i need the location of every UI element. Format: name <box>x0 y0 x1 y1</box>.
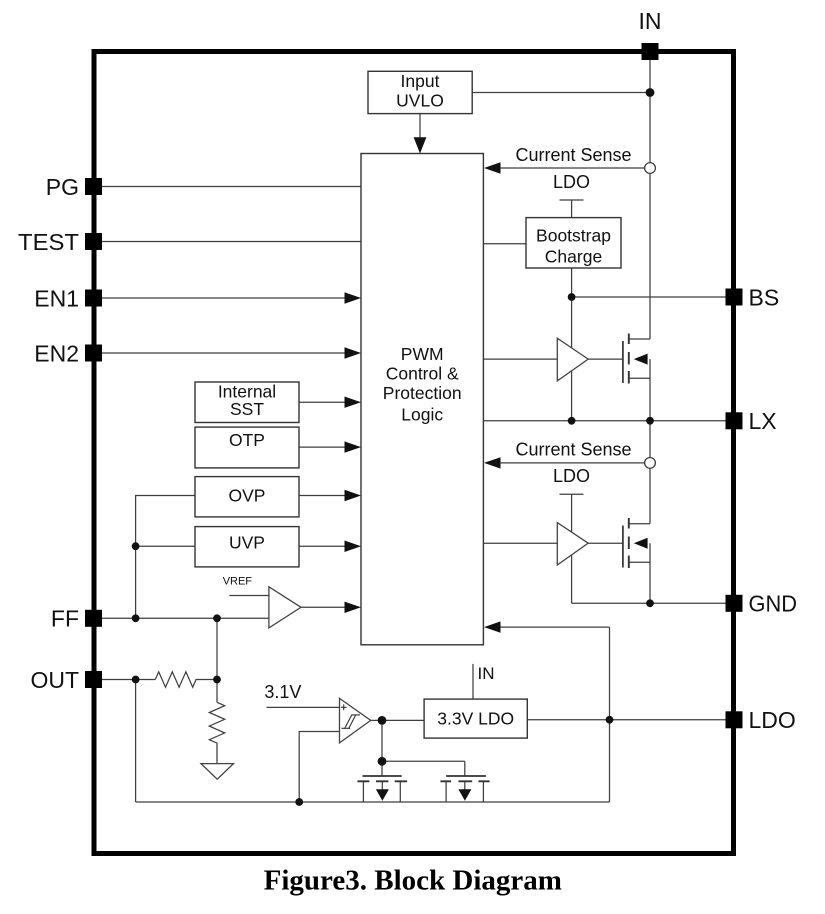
PLATES, ARROWS, PINS, DOTS <box>85 43 743 854</box>
M2 gate plate <box>622 526 624 568</box>
wire M1 source/body vertical to LX <box>649 359 651 421</box>
M2 channel plate dashes <box>628 518 630 568</box>
wire Input UVLO down to PWM box <box>419 114 421 139</box>
wire EN1 pin to PWM box <box>102 297 346 299</box>
pin GND <box>726 595 743 612</box>
wire current sense 1 into PWM <box>499 167 645 169</box>
M3 channel dashes <box>357 780 407 782</box>
wire OUT node down to bottom rail <box>135 680 137 803</box>
ground <box>201 764 234 780</box>
driver U2 (high-side gate driver) <box>557 338 588 381</box>
wire BS branch to BS pin <box>572 296 726 298</box>
pin OUT <box>85 671 102 688</box>
svg-text:3.3V LDO: 3.3V LDO <box>437 709 514 729</box>
svg-text:VREF: VREF <box>223 576 253 588</box>
M3 body arrow down <box>376 789 389 801</box>
block U1 PWM Control & Protection Logic <box>361 154 483 645</box>
node BS junction <box>568 293 576 301</box>
pin PG <box>85 178 102 195</box>
block Input UVLO <box>368 71 472 113</box>
wire divider node vertical FF to R2 <box>216 618 218 702</box>
wire 3.3V LDO output to LDO pin <box>527 719 726 721</box>
svg-text:Charge: Charge <box>545 247 602 267</box>
wire driver U3 output to M2 gate <box>588 542 622 544</box>
svg-text:EN1: EN1 <box>34 285 79 311</box>
svg-text:OTP: OTP <box>229 430 265 450</box>
arrowhead Internal SST into PWM <box>345 397 362 408</box>
wire driver U3 bottom to GND line <box>571 555 573 603</box>
wire IN rail to Input UVLO <box>472 92 650 94</box>
wire M3 body lead <box>381 781 383 791</box>
wire IN stub to 3.3V LDO <box>472 664 474 699</box>
wire bottom rail <box>136 801 610 803</box>
M4 gate bar <box>446 775 486 777</box>
comparator U5 hysteresis glyph <box>342 715 361 728</box>
svg-text:EN2: EN2 <box>34 340 79 366</box>
wire M4 right stub <box>482 781 484 802</box>
wire gate rail to M4 <box>382 760 465 762</box>
wire Bootstrap Charge down through driver U2 to LX <box>571 268 573 421</box>
wire comparator U5 output to 3.3V LDO <box>371 719 424 721</box>
wire OVP left branch <box>136 496 195 619</box>
wire M2 source/body vertical to GND <box>649 543 651 603</box>
svg-text:GND: GND <box>749 591 798 617</box>
svg-text:Protection: Protection <box>383 383 462 403</box>
node rail feedback junction <box>295 798 303 806</box>
pin IN <box>642 43 659 60</box>
wire M4 left stub <box>445 781 447 802</box>
block OTP <box>195 427 299 468</box>
op-amp U4 (VREF comparator) <box>269 587 301 628</box>
svg-text:LX: LX <box>749 408 777 434</box>
wire M2 source stub <box>629 561 650 563</box>
M2 body arrow <box>634 538 648 549</box>
wire M1 source stub <box>629 377 650 379</box>
svg-text:3.1V: 3.1V <box>264 682 301 702</box>
chip outline border <box>94 52 734 854</box>
wire current sense 2 into PWM <box>499 462 645 464</box>
wire VREF stub <box>229 595 269 597</box>
svg-text:BS: BS <box>749 284 780 310</box>
arrowhead comparator U4 into PWM <box>345 602 362 613</box>
node OUT junction left <box>132 676 140 684</box>
wire M3 right stub <box>399 781 401 802</box>
node comparator output junction <box>378 716 387 725</box>
op-amp U5 (3.1V hysteresis comparator) <box>340 698 371 743</box>
svg-text:IN: IN <box>478 664 495 683</box>
M1 channel plate dashes <box>628 334 630 384</box>
svg-text:Current Sense: Current Sense <box>515 439 631 459</box>
arrowhead feedback into PWM <box>484 621 501 632</box>
wire bottom rail up to LDO node <box>609 627 611 802</box>
svg-text:LDO: LDO <box>553 466 590 486</box>
svg-text:IN: IN <box>639 8 662 34</box>
node LX junction left <box>568 417 576 425</box>
wire LDO T-bar 2 <box>560 494 584 533</box>
pin LX <box>726 412 743 429</box>
block OVP <box>195 477 299 517</box>
arrowhead EN1 into PWM <box>345 292 362 303</box>
wire M2 drain stub <box>629 523 650 525</box>
wire M3 left stub <box>362 781 364 802</box>
BLOCKS <box>195 71 621 779</box>
wire PWM to driver U3 input <box>483 542 557 544</box>
wire LDO T-bar 1 <box>560 200 584 218</box>
svg-text:Figure3. Block Diagram: Figure3. Block Diagram <box>264 865 562 897</box>
block Bootstrap Charge <box>526 218 621 268</box>
node FF junction divider <box>213 614 221 622</box>
svg-text:LDO: LDO <box>749 707 796 733</box>
wire comparator U4 output to PWM <box>301 606 346 608</box>
driver U3 (low-side gate driver) <box>557 523 588 565</box>
svg-text:SST: SST <box>230 399 264 419</box>
arrowhead OVP into PWM <box>345 490 362 501</box>
wire IN rail vertical from IN pin to current-sense circle <box>649 59 651 163</box>
block UVP <box>195 527 299 567</box>
current sense probe circle 2 <box>645 458 656 469</box>
svg-text:FF: FF <box>51 606 79 632</box>
svg-text:LDO: LDO <box>553 172 590 192</box>
wire M4 gate lead <box>464 761 466 776</box>
arrowhead current sense 2 into PWM <box>484 457 501 468</box>
resistor R2 vertical zigzag <box>209 702 224 763</box>
svg-text:Control &: Control & <box>386 364 459 384</box>
wire M3 gate lead <box>381 761 383 776</box>
wire LX to current-sense circle 2 <box>649 421 651 458</box>
wire Internal SST to PWM <box>299 401 346 403</box>
svg-text:Current Sense: Current Sense <box>515 145 631 165</box>
pin FF <box>85 610 102 627</box>
wire IN rail below circle to M1 drain <box>649 173 651 339</box>
svg-text:OVP: OVP <box>229 485 266 505</box>
M1 gate plate <box>622 341 624 383</box>
svg-text:TEST: TEST <box>18 229 79 255</box>
node LDO output junction <box>606 716 614 724</box>
arrowhead Input UVLO into PWM <box>414 137 427 153</box>
svg-text:Input: Input <box>401 71 440 91</box>
wire feedback into PWM <box>499 626 610 628</box>
wire UVP left branch <box>136 545 195 547</box>
pin EN2 <box>85 345 102 362</box>
wire PWM to Bootstrap Charge <box>483 243 526 245</box>
wire PWM to driver U2 input <box>483 358 557 360</box>
wire EN2 pin to PWM box <box>102 352 346 354</box>
block Internal SST <box>195 382 299 423</box>
svg-text:Logic: Logic <box>401 405 443 425</box>
pin BS <box>726 289 743 306</box>
wire 3.1V stub to comparator U5 <box>267 706 340 708</box>
M4 channel dashes <box>440 780 489 782</box>
svg-text:OUT: OUT <box>30 667 79 693</box>
svg-text:PWM: PWM <box>401 344 444 364</box>
pin TEST <box>85 233 102 250</box>
node gate rail junction <box>378 757 387 766</box>
wire GND line to GND pin <box>572 602 726 604</box>
wire M1 drain stub <box>629 338 650 340</box>
node FF junction left <box>132 614 140 622</box>
node GND junction <box>646 599 654 607</box>
wire OUT pin to resistor R1 <box>102 679 155 681</box>
node IN-UVLO junction <box>646 88 655 97</box>
wire circle 2 down to M2 drain <box>649 468 651 523</box>
wire driver U2 output to M1 gate <box>588 358 622 360</box>
current sense probe circle 1 <box>645 163 656 174</box>
arrowhead current sense 1 into PWM <box>484 162 501 173</box>
node OVP/UVP junction <box>132 542 140 550</box>
wire gate node down from output <box>381 720 383 761</box>
arrowhead OTP into PWM <box>345 441 362 452</box>
wire TEST pin to PWM box <box>102 241 361 243</box>
M4 body arrow down <box>458 789 471 801</box>
node OUT divider junction <box>213 676 221 684</box>
wire UVP to PWM <box>299 545 346 547</box>
M3 gate bar <box>363 775 402 777</box>
svg-text:UVP: UVP <box>229 533 265 553</box>
resistor R1 horizontal zigzag <box>155 672 217 687</box>
wire LX line <box>483 420 726 422</box>
comparator U5 plus sign <box>341 704 347 710</box>
wire M4 body lead <box>464 781 466 791</box>
wire comparator U5 inverting input from rail <box>299 732 339 803</box>
pin EN1 <box>85 290 102 307</box>
wire OTP to PWM <box>299 446 346 448</box>
block 3.3V LDO <box>424 699 527 738</box>
svg-text:Bootstrap: Bootstrap <box>536 226 611 246</box>
wire PG pin to PWM box <box>102 186 361 188</box>
svg-text:UVLO: UVLO <box>396 91 444 111</box>
M1 body arrow <box>634 354 648 365</box>
pin LDO <box>726 711 743 728</box>
node LX junction right <box>646 417 654 425</box>
arrowhead EN2 into PWM <box>345 347 362 358</box>
wire FF pin to comparator U4 <box>102 617 269 619</box>
wire OVP to PWM <box>299 495 346 497</box>
arrowhead UVP into PWM <box>345 541 362 553</box>
svg-text:PG: PG <box>46 174 79 200</box>
